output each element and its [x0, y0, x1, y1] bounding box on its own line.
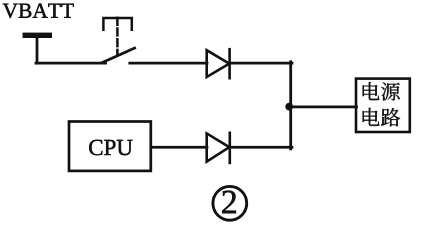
battery terminal stub wire: [36, 37, 39, 64]
label 电 of 电路 (row 2): [363, 108, 380, 126]
wire from D2 cathode to bus bottom corner: [230, 146, 292, 149]
battery terminal VBATT bar: [23, 33, 53, 38]
pushbutton switch S: actuator bracket: [103, 18, 131, 30]
block: power supply circuit box (电源电路): [356, 79, 410, 132]
vertical bus wire joining D1 and D2 outputs: [289, 62, 292, 149]
diode D1 cathode bar: [228, 49, 231, 78]
pushbutton switch S: blade: [102, 48, 135, 63]
label 路 of 电路 (row 2): [381, 108, 400, 126]
wire from junction to power-circuit box: [290, 106, 357, 109]
label CPU: [89, 140, 132, 155]
figure number 2: [222, 191, 236, 214]
diode D1 triangle: [207, 50, 230, 77]
net label VBATT: [3, 4, 74, 19]
wire from CPU output to diode D2 anode: [151, 146, 207, 149]
pushbutton switch S: actuator dashed link: [116, 18, 119, 55]
junction node dot: [285, 103, 293, 111]
wire from VBATT terminal to switch: [36, 62, 106, 65]
wire from D1 cathode to right bus corner: [230, 62, 292, 65]
figure number circle ②: [213, 186, 247, 220]
wire from switch to diode D1 anode: [130, 62, 207, 65]
diode D2 triangle: [207, 133, 230, 161]
label 电 of 电源 (row 1): [363, 82, 380, 100]
block: CPU box: [69, 122, 151, 171]
diode D2 cathode bar: [229, 133, 232, 163]
label 源 of 电源 (row 1): [381, 82, 400, 100]
